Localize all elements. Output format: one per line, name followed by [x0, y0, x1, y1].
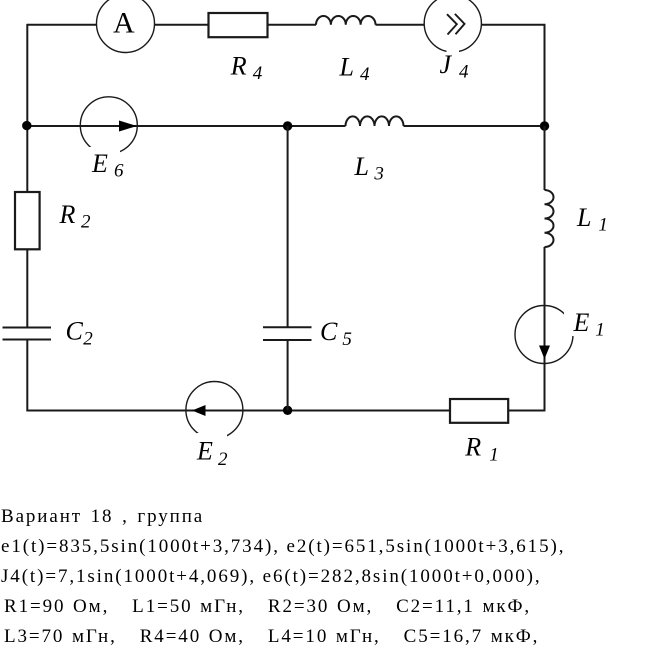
capacitor C5 [263, 317, 352, 350]
svg-text:6: 6 [114, 161, 124, 182]
current source J4 [424, 0, 481, 82]
voltage source E1 [515, 306, 606, 364]
svg-text:R: R [230, 52, 247, 81]
capacitor C2 [3, 317, 94, 350]
svg-text:4: 4 [459, 62, 469, 83]
svg-text:L: L [576, 203, 591, 232]
svg-text:2: 2 [218, 449, 228, 470]
svg-text:A: A [113, 7, 135, 40]
wire right rail lower [544, 247, 546, 411]
svg-text:J: J [440, 50, 453, 79]
wire R2 to C2 [26, 249, 28, 327]
wire left rail upper [26, 24, 28, 192]
voltage source E6 [80, 97, 137, 182]
resistor R2 [15, 192, 91, 249]
wire A to R4 [155, 24, 209, 26]
svg-text:L: L [339, 53, 354, 82]
wire mid rail lower [287, 340, 289, 411]
wire C2 to bottom-left corner [27, 340, 450, 411]
svg-text:1: 1 [598, 215, 608, 236]
svg-text:2: 2 [83, 329, 93, 350]
svg-text:E: E [91, 149, 108, 178]
svg-text:1: 1 [595, 320, 605, 341]
node bottom middle [283, 406, 292, 415]
wire R4 to L4 [268, 24, 317, 26]
ammeter A [97, 0, 155, 53]
svg-text:4: 4 [360, 64, 370, 85]
node middle row2 [283, 121, 292, 130]
parameters text block [0, 0, 666, 1]
wire mid rail upper [287, 126, 289, 327]
inductor L4 [316, 16, 376, 85]
node right row2 [540, 121, 549, 130]
inductor L1 [545, 190, 608, 247]
svg-text:3: 3 [373, 164, 384, 185]
wire J4 to top-right corner [481, 25, 544, 126]
svg-text:C: C [320, 317, 338, 346]
svg-text:R: R [59, 200, 76, 229]
svg-text:R: R [464, 433, 481, 462]
resistor R1 [450, 399, 508, 466]
svg-text:4: 4 [253, 63, 263, 84]
wire right rail upper [544, 126, 546, 190]
svg-text:L: L [354, 152, 369, 181]
wire R1 to bottom-right corner [508, 410, 545, 412]
wire row2 left segment [27, 125, 345, 127]
svg-text:2: 2 [81, 212, 91, 233]
wire L4 to J4 [376, 24, 425, 26]
wire row2 right segment [404, 125, 545, 127]
resistor R4 [209, 13, 268, 84]
voltage source E2 [186, 382, 243, 471]
wire top-left horizontal [27, 24, 96, 26]
inductor L3 [346, 116, 404, 184]
svg-text:C: C [66, 317, 84, 346]
node left (junction) [22, 121, 31, 130]
svg-text:1: 1 [489, 445, 499, 466]
svg-text:E: E [196, 437, 213, 466]
svg-text:E: E [573, 308, 590, 337]
svg-text:5: 5 [342, 329, 352, 350]
